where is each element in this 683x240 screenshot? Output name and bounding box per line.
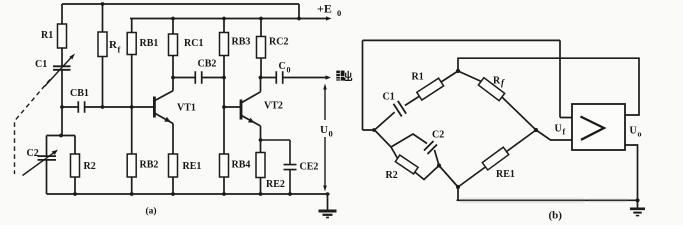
ground symbol (a) — [319, 192, 337, 217]
capacitor C1 (variable) — [35, 54, 75, 108]
svg-text:f: f — [501, 78, 505, 88]
junction RE1 ground dot — [171, 192, 175, 196]
svg-text:f: f — [563, 128, 566, 137]
svg-text:C1: C1 — [35, 59, 47, 70]
svg-text:RC2: RC2 — [269, 37, 288, 48]
junction ground dot (b) — [635, 198, 639, 202]
svg-text:C: C — [279, 61, 286, 72]
resistor RC1 — [169, 19, 204, 78]
wire R2C2 top — [47, 135, 76, 137]
junction RB3 rail dot — [222, 17, 226, 21]
svg-text:R1: R1 — [41, 30, 53, 41]
junction VT2 emitter dot — [259, 138, 263, 142]
resistor Rf — [98, 4, 121, 107]
junction R2 ground dot — [73, 192, 77, 196]
svg-text:RC1: RC1 — [184, 38, 203, 49]
resistor R2 — [71, 136, 96, 195]
watermark smudge — [460, 198, 628, 204]
svg-text:R: R — [493, 76, 501, 87]
capacitor CE2 — [261, 140, 319, 194]
svg-text:CB2: CB2 — [198, 59, 217, 70]
resistor R2 (b) — [386, 155, 419, 181]
capacitor CB2 — [173, 59, 224, 84]
junction RB4 ground dot — [222, 192, 226, 196]
svg-text:RE1: RE1 — [183, 161, 202, 172]
junction CB2 RB3 dot — [222, 76, 226, 80]
wire output down lead — [625, 145, 638, 200]
junction RE2 ground dot — [259, 192, 263, 196]
svg-text:U: U — [630, 126, 637, 137]
capacitor CB1 — [62, 88, 154, 113]
svg-text:U: U — [555, 124, 562, 135]
svg-text:o: o — [638, 130, 642, 139]
resistor R1 (b) — [412, 71, 459, 100]
svg-text:(a): (a) — [146, 206, 157, 217]
svg-text:RE1: RE1 — [496, 169, 515, 180]
transistor VT2 — [241, 78, 283, 141]
power +E0 terminal — [299, 2, 341, 21]
op-amp U1 — [572, 104, 625, 150]
junction node A dot — [60, 105, 64, 109]
wire output feedback loop — [458, 58, 639, 115]
junction top vertex dot — [456, 69, 460, 73]
svg-text:+E: +E — [317, 2, 332, 16]
junction VT2 collector dot — [259, 76, 263, 80]
junction supply corner dot — [297, 17, 301, 21]
capacitor C1 (b) — [375, 92, 420, 131]
svg-text:R1: R1 — [412, 72, 424, 83]
svg-text:RB2: RB2 — [140, 160, 159, 171]
svg-text:VT2: VT2 — [264, 101, 283, 112]
capacitor C2 (variable) — [23, 136, 59, 195]
label Uo — [630, 126, 642, 139]
wire ground rail (b) — [457, 187, 638, 200]
svg-text:CB1: CB1 — [70, 88, 89, 99]
resistor RE1 — [169, 124, 202, 194]
svg-text:(b): (b) — [549, 210, 563, 222]
wire second supply rail — [130, 18, 299, 20]
svg-text:VT1: VT1 — [177, 103, 196, 114]
svg-text:U: U — [320, 124, 328, 136]
resistor RB1 — [127, 19, 158, 108]
wire noninverting input loop — [363, 40, 573, 130]
svg-text:R2: R2 — [386, 170, 398, 181]
junction Rf base dot — [101, 105, 105, 109]
svg-text:f: f — [118, 45, 121, 55]
svg-text:0: 0 — [287, 66, 291, 75]
resistor RB2 — [127, 107, 158, 194]
junction VT1 collector dot — [171, 76, 175, 80]
svg-text:RB3: RB3 — [232, 37, 251, 48]
capacitor C0 — [261, 61, 332, 84]
svg-text:R2: R2 — [84, 161, 96, 172]
resistor R1 — [41, 4, 67, 66]
resistor RE2 — [256, 140, 285, 194]
wire Uf lead — [536, 130, 572, 140]
junction RC1 rail dot — [171, 17, 175, 21]
junction RC2 rail dot — [259, 17, 263, 21]
junction R2C2 top dot — [59, 134, 63, 138]
junction box exit dot — [437, 163, 441, 167]
resistor RC2 — [257, 19, 289, 78]
svg-text:0: 0 — [337, 8, 341, 18]
svg-text:C1: C1 — [383, 92, 395, 103]
junction CE2 ground dot — [288, 192, 292, 196]
svg-text:CE2: CE2 — [300, 162, 319, 173]
resistor RE1 (b) — [482, 147, 515, 180]
transistor VT1 — [154, 78, 196, 125]
wire box to bottom vertex — [439, 166, 458, 188]
wire +E0 top supply rail — [62, 3, 299, 5]
svg-text:0: 0 — [329, 129, 333, 139]
svg-text:RB4: RB4 — [232, 160, 251, 171]
svg-text:C2: C2 — [27, 148, 39, 159]
resistor RB4 — [220, 107, 251, 194]
wire ground rail (a) — [47, 193, 330, 195]
label Uf — [555, 124, 566, 137]
wire RE1 bridge edge — [458, 130, 536, 187]
junction Rf top dot — [101, 2, 105, 6]
svg-text:RB1: RB1 — [140, 38, 159, 49]
wire RB3 to base — [223, 78, 225, 108]
junction VT2 base dot — [222, 105, 226, 109]
voltage U0 annotation — [320, 84, 333, 192]
capacitor C2 (b) — [424, 130, 444, 155]
wire VT2 base — [224, 106, 241, 108]
junction right vertex dot — [534, 128, 538, 132]
R2C2 parallel box (b) — [391, 134, 439, 180]
wire node A vertical — [61, 107, 63, 136]
svg-text:C2: C2 — [432, 130, 444, 141]
wire lower-left edge to box — [375, 130, 392, 147]
junction left vertex dot — [372, 128, 376, 132]
junction bottom vertex dot — [456, 185, 460, 189]
ground symbol (b) — [630, 200, 645, 215]
resistor Rf (b) — [458, 71, 536, 130]
junction RB1 base dot — [130, 105, 134, 109]
output label (chinese) — [336, 71, 351, 81]
dashed gang line C1-C2 — [15, 80, 51, 175]
svg-text:RE2: RE2 — [266, 179, 285, 190]
junction RB2 ground dot — [130, 192, 134, 196]
resistor RB3 — [220, 19, 251, 78]
